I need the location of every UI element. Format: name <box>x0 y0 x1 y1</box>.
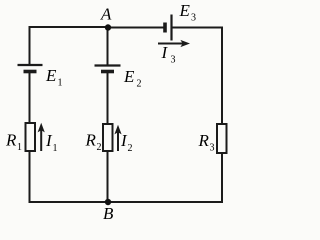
svg-text:E: E <box>45 66 57 85</box>
svg-text:R: R <box>85 131 97 150</box>
wire bottom-right segment (node B to corner, up to R3) <box>108 152 222 202</box>
battery E3 short plate <box>163 23 167 33</box>
current arrow I2 <box>114 125 121 151</box>
svg-text:1: 1 <box>53 143 58 154</box>
resistor R2 <box>103 124 113 151</box>
wire top-right segment (node A to E3 short plate) <box>108 27 164 29</box>
wire middle branch node A to E2 <box>107 27 109 65</box>
svg-text:E: E <box>179 1 191 20</box>
battery E3 long plate <box>170 15 172 41</box>
wire E3 long plate to top-right corner and down right side <box>172 28 222 125</box>
wire left branch E1 to R1 <box>29 73 31 124</box>
battery E1 short plate <box>24 70 37 74</box>
node A junction dot <box>105 24 111 30</box>
svg-text:2: 2 <box>128 143 133 154</box>
wire top-left segment (corner to node A) <box>30 27 109 65</box>
svg-text:2: 2 <box>137 79 142 90</box>
svg-text:R: R <box>198 131 210 150</box>
battery E1 long plate <box>18 64 43 66</box>
svg-text:3: 3 <box>210 143 215 154</box>
svg-text:1: 1 <box>58 78 63 89</box>
svg-text:R: R <box>5 131 17 150</box>
current arrow I3 <box>158 40 190 47</box>
node B junction dot <box>105 199 111 205</box>
svg-text:E: E <box>123 67 135 86</box>
battery E2 short plate <box>101 70 114 74</box>
resistor R1 <box>26 123 36 151</box>
wire middle branch R2 to node B <box>107 150 109 202</box>
svg-text:B: B <box>103 204 114 223</box>
wire left branch R1 to bottom-left corner <box>30 150 109 202</box>
svg-text:1: 1 <box>17 142 22 153</box>
resistor R3 <box>217 124 227 153</box>
svg-text:2: 2 <box>97 142 102 153</box>
svg-text:3: 3 <box>191 13 196 24</box>
current arrow I1 <box>38 123 45 151</box>
svg-text:A: A <box>100 5 112 24</box>
svg-text:3: 3 <box>171 55 176 66</box>
wire middle branch E2 to R2 <box>107 73 109 125</box>
battery E2 long plate <box>95 64 121 66</box>
